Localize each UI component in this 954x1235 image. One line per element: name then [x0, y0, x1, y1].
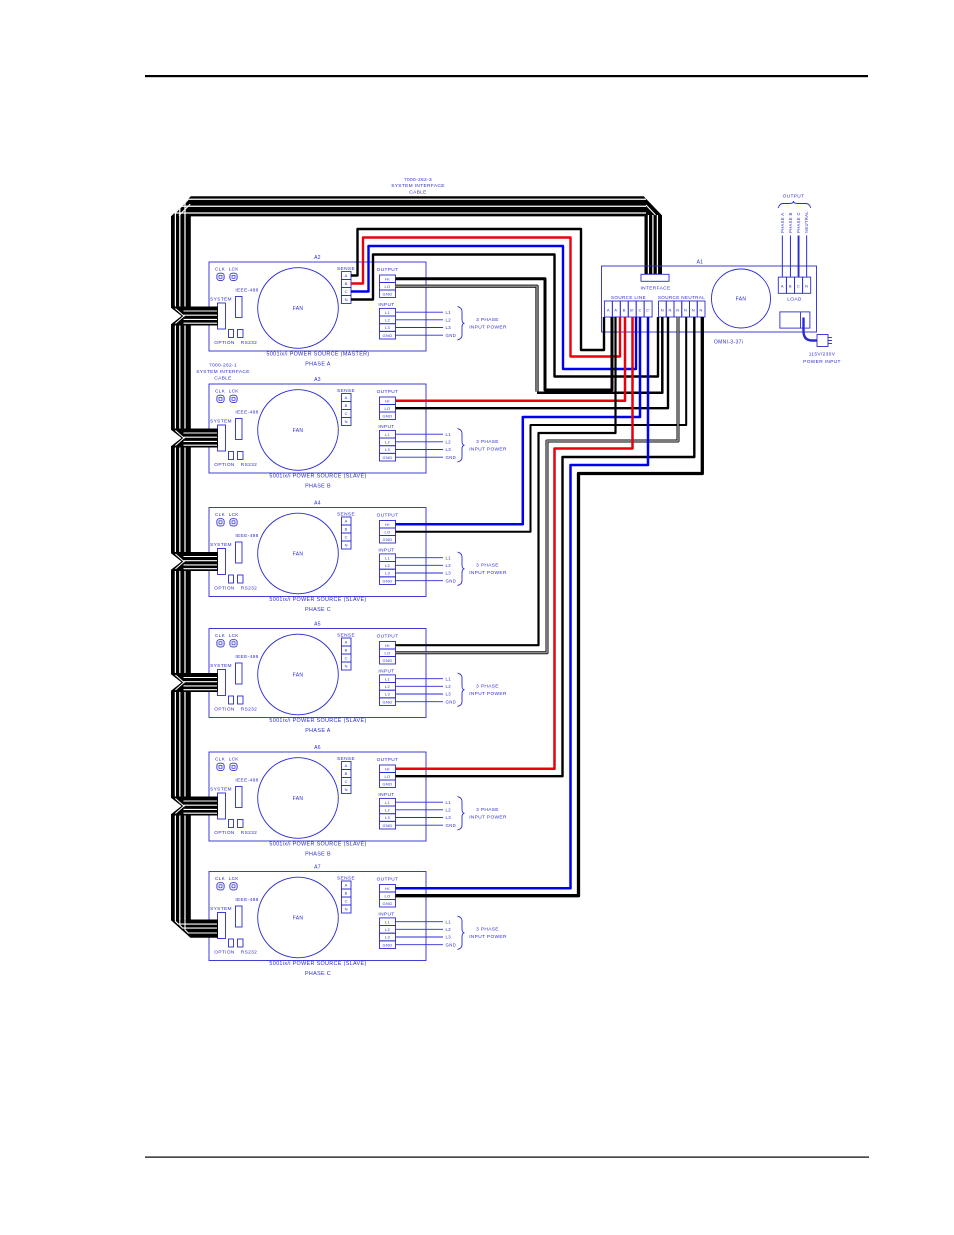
svg-text:PHASE A: PHASE A: [780, 213, 785, 233]
svg-text:L2: L2: [446, 563, 452, 568]
svg-text:A: A: [607, 308, 610, 313]
svg-text:RS232: RS232: [241, 340, 257, 346]
svg-text:CLK: CLK: [215, 756, 226, 761]
svg-text:HI: HI: [385, 276, 390, 281]
svg-text:N: N: [345, 787, 348, 792]
svg-text:PHASE C: PHASE C: [305, 971, 331, 977]
svg-text:GND: GND: [383, 578, 393, 583]
svg-text:3 PHASE: 3 PHASE: [476, 807, 499, 813]
svg-text:GND: GND: [383, 781, 393, 786]
svg-text:B: B: [345, 281, 348, 286]
svg-text:N: N: [661, 308, 664, 313]
svg-text:INPUT: INPUT: [378, 424, 394, 430]
svg-text:L3: L3: [385, 325, 391, 330]
svg-text:B': B': [630, 308, 634, 313]
power source A7 (PHASE C): [209, 865, 507, 978]
svg-text:NEUTRAL: NEUTRAL: [804, 211, 809, 233]
svg-text:CABLE: CABLE: [409, 189, 426, 195]
svg-text:B: B: [345, 891, 348, 896]
svg-text:SYSTEM: SYSTEM: [210, 419, 232, 425]
svg-text:FAN: FAN: [293, 306, 304, 312]
svg-text:GND: GND: [383, 537, 393, 542]
svg-text:L3: L3: [385, 571, 391, 576]
svg-text:CLK: CLK: [215, 388, 226, 393]
svg-text:FAN: FAN: [736, 296, 747, 302]
svg-text:L2: L2: [446, 927, 452, 932]
svg-text:N: N: [345, 419, 348, 424]
svg-text:3 PHASE: 3 PHASE: [476, 927, 499, 933]
svg-text:RS232: RS232: [241, 950, 257, 956]
svg-text:A: A: [781, 284, 784, 289]
svg-text:A: A: [345, 763, 348, 768]
A1 FAN: [712, 269, 771, 328]
svg-text:OUTPUT: OUTPUT: [377, 513, 399, 519]
svg-text:GND: GND: [446, 823, 457, 828]
cable stripes: [174, 202, 176, 920]
svg-text:OUTPUT: OUTPUT: [377, 267, 399, 273]
svg-text:GND: GND: [383, 942, 393, 947]
svg-text:GND: GND: [383, 901, 393, 906]
svg-text:L3: L3: [446, 571, 452, 576]
svg-text:B: B: [345, 527, 348, 532]
svg-text:3 PHASE: 3 PHASE: [476, 317, 499, 323]
svg-text:INPUT POWER: INPUT POWER: [469, 934, 507, 940]
svg-text:SOURCE NEUTRAL: SOURCE NEUTRAL: [658, 295, 705, 300]
wire: A7 OUTPUT LO to A1 SOURCE NEUTRAL N6 (black): [396, 317, 703, 896]
wire: A2 SENSE B to A1 SOURCE LINE B (red): [351, 238, 620, 357]
svg-text:L3: L3: [446, 935, 452, 940]
svg-text:OUTPUT: OUTPUT: [377, 757, 399, 763]
svg-text:L1: L1: [385, 676, 391, 681]
svg-text:A: A: [345, 273, 348, 278]
svg-text:L3: L3: [385, 447, 391, 452]
svg-text:L2: L2: [385, 807, 391, 812]
svg-text:GND: GND: [446, 942, 457, 947]
svg-text:HI: HI: [385, 766, 390, 771]
svg-text:B: B: [345, 771, 348, 776]
svg-text:SYSTEM INTERFACE: SYSTEM INTERFACE: [196, 369, 250, 375]
svg-text:A6: A6: [314, 745, 321, 751]
svg-text:INPUT POWER: INPUT POWER: [469, 815, 507, 821]
svg-text:LCK: LCK: [229, 876, 240, 881]
svg-text:PHASE B: PHASE B: [788, 212, 793, 233]
svg-text:IEEE-488: IEEE-488: [235, 778, 258, 784]
cable branch into A2 SYSTEM: [171, 307, 218, 326]
svg-text:INPUT: INPUT: [378, 792, 394, 798]
svg-text:N: N: [345, 297, 348, 302]
wire: A2 SENSE A to A1 SOURCE LINE A (black): [351, 229, 604, 350]
wire: A4 OUTPUT LO to A1 SOURCE NEUTRAL N4 (black): [396, 317, 687, 532]
svg-text:GND: GND: [446, 333, 457, 338]
svg-text:5001ix/i POWER SOURCE (SLAVE): 5001ix/i POWER SOURCE (SLAVE): [269, 842, 366, 848]
svg-text:FAN: FAN: [293, 428, 304, 434]
svg-text:L3: L3: [446, 815, 452, 820]
svg-text:N: N: [345, 543, 348, 548]
svg-text:CABLE: CABLE: [214, 376, 231, 382]
svg-text:GND: GND: [446, 699, 457, 704]
svg-text:C': C': [646, 308, 650, 313]
svg-text:L1: L1: [385, 432, 391, 437]
wire: A7 OUTPUT HI to A1 SOURCE LINE C' (blue): [396, 317, 649, 888]
svg-text:FAN: FAN: [293, 915, 304, 921]
svg-text:CLK: CLK: [215, 512, 226, 517]
svg-text:INPUT: INPUT: [378, 302, 394, 308]
svg-text:L1: L1: [385, 919, 391, 924]
svg-text:L3: L3: [446, 447, 452, 452]
svg-text:LCK: LCK: [229, 388, 240, 393]
svg-text:A: A: [345, 640, 348, 645]
cable branch into A4 SYSTEM: [171, 552, 218, 571]
interface box A1 (OMNI-3-37i): [602, 194, 841, 366]
svg-text:A2: A2: [314, 255, 321, 261]
svg-text:B: B: [623, 308, 626, 313]
svg-text:HI: HI: [385, 643, 390, 648]
svg-text:SYSTEM INTERFACE: SYSTEM INTERFACE: [391, 183, 445, 189]
svg-text:GND: GND: [383, 823, 393, 828]
svg-text:PHASE B: PHASE B: [305, 852, 331, 858]
wire: A6 OUTPUT HI to A1 SOURCE LINE B' (red): [396, 317, 633, 769]
power cord + plug: [804, 318, 818, 341]
page footer rule: [145, 1157, 869, 1158]
power source A5 (PHASE A): [209, 622, 507, 735]
svg-text:OPTION: OPTION: [214, 830, 235, 836]
svg-text:OMNI-3-37i: OMNI-3-37i: [714, 340, 743, 346]
svg-text:GND: GND: [446, 578, 457, 583]
svg-text:L2: L2: [446, 807, 452, 812]
svg-text:SYSTEM: SYSTEM: [210, 906, 232, 912]
svg-text:CLK: CLK: [215, 876, 226, 881]
svg-text:OUTPUT: OUTPUT: [377, 389, 399, 395]
svg-text:C: C: [345, 779, 348, 784]
power source A3 (PHASE B): [209, 377, 507, 490]
wire: A2 SENSE C to A1 SOURCE LINE C (blue): [351, 246, 636, 369]
page header rule: [145, 75, 868, 77]
svg-text:FAN: FAN: [293, 551, 304, 557]
svg-text:LO: LO: [384, 406, 390, 411]
svg-text:L3: L3: [446, 692, 452, 697]
svg-text:N: N: [699, 308, 702, 313]
svg-text:B: B: [789, 284, 792, 289]
svg-text:IEEE-488: IEEE-488: [235, 533, 258, 539]
svg-text:3 PHASE: 3 PHASE: [476, 439, 499, 445]
svg-text:L1: L1: [385, 310, 391, 315]
svg-text:A3: A3: [314, 377, 321, 383]
svg-text:IEEE-488: IEEE-488: [235, 654, 258, 660]
svg-text:PHASE C: PHASE C: [305, 607, 331, 613]
svg-text:5001ix/i POWER SOURCE (SLAVE): 5001ix/i POWER SOURCE (SLAVE): [269, 961, 366, 967]
svg-text:L3: L3: [385, 692, 391, 697]
svg-text:7000-262-1: 7000-262-1: [209, 363, 237, 369]
svg-text:GND: GND: [446, 455, 457, 460]
svg-text:A7: A7: [314, 865, 321, 871]
svg-text:LOAD: LOAD: [787, 297, 802, 303]
svg-text:L2: L2: [385, 927, 391, 932]
svg-text:GND: GND: [383, 291, 393, 296]
svg-text:RS232: RS232: [241, 462, 257, 468]
svg-text:A4: A4: [314, 501, 321, 507]
svg-text:PHASE A: PHASE A: [305, 728, 331, 734]
svg-text:OPTION: OPTION: [214, 340, 235, 346]
svg-text:L2: L2: [385, 563, 391, 568]
cable branch into A3 SYSTEM: [171, 429, 218, 448]
wire: A5 OUTPUT LO to A1 SOURCE NEUTRAL N3 (gray, black-edged): [396, 317, 679, 653]
system interface cable bundle (left trunk + top run to A1): [171, 196, 662, 920]
svg-text:L2: L2: [446, 684, 452, 689]
svg-text:GND: GND: [383, 333, 393, 338]
svg-text:L2: L2: [385, 439, 391, 444]
svg-text:N: N: [692, 308, 695, 313]
svg-text:C: C: [639, 308, 642, 313]
svg-text:GND: GND: [383, 699, 393, 704]
wire: A2 SENSE N to A1 SOURCE NEUTRAL N1 (black): [351, 255, 658, 377]
svg-text:N: N: [345, 907, 348, 912]
wire: A6 OUTPUT LO to A1 SOURCE NEUTRAL N5 (black): [396, 317, 695, 776]
INTERFACE connector: [641, 274, 669, 281]
cable branch into A5 SYSTEM: [171, 673, 218, 692]
svg-text:L3: L3: [385, 935, 391, 940]
svg-text:OUTPUT: OUTPUT: [377, 877, 399, 883]
svg-text:GND: GND: [383, 413, 393, 418]
svg-text:A: A: [345, 519, 348, 524]
svg-text:PHASE B: PHASE B: [305, 484, 331, 490]
svg-text:L3: L3: [385, 815, 391, 820]
wire: A3 OUTPUT LO to A1 SOURCE NEUTRAL N2 (black): [396, 317, 669, 408]
svg-text:LO: LO: [384, 893, 390, 898]
svg-text:INPUT POWER: INPUT POWER: [469, 325, 507, 331]
svg-text:LCK: LCK: [229, 756, 240, 761]
svg-text:CLK: CLK: [215, 633, 226, 638]
svg-text:A1: A1: [697, 260, 704, 266]
svg-text:N: N: [345, 664, 348, 669]
svg-text:GND: GND: [383, 658, 393, 663]
svg-text:INPUT POWER: INPUT POWER: [469, 447, 507, 453]
cable branch into A7 SYSTEM (trunk end elbow): [171, 920, 218, 938]
cable branch into A6 SYSTEM: [171, 797, 218, 816]
svg-text:POWER INPUT: POWER INPUT: [803, 359, 841, 365]
svg-text:5001ix/i POWER SOURCE (SLAVE): 5001ix/i POWER SOURCE (SLAVE): [269, 718, 366, 724]
svg-text:SYSTEM: SYSTEM: [210, 542, 232, 548]
svg-text:HI: HI: [385, 886, 390, 891]
svg-text:C: C: [345, 656, 348, 661]
wire: A4 OUTPUT HI to A1 SOURCE LINE C (blue): [396, 317, 641, 524]
svg-text:A: A: [345, 883, 348, 888]
svg-text:SYSTEM: SYSTEM: [210, 787, 232, 793]
svg-text:INPUT: INPUT: [378, 548, 394, 554]
svg-text:PHASE A: PHASE A: [305, 362, 331, 368]
svg-text:FAN: FAN: [293, 672, 304, 678]
svg-text:LO: LO: [384, 650, 390, 655]
svg-text:LCK: LCK: [229, 512, 240, 517]
svg-text:L2: L2: [446, 317, 452, 322]
svg-text:L1: L1: [385, 800, 391, 805]
svg-text:CLK: CLK: [215, 266, 226, 271]
wire: A5 OUTPUT HI to A1 SOURCE LINE A' (black): [396, 317, 616, 645]
svg-text:L2: L2: [385, 684, 391, 689]
wire: A3 OUTPUT HI to A1 SOURCE LINE B (red): [396, 317, 626, 401]
svg-text:RS232: RS232: [241, 830, 257, 836]
svg-text:5001ix/i POWER SOURCE (SLAVE): 5001ix/i POWER SOURCE (SLAVE): [269, 597, 366, 603]
svg-text:5001ix/i POWER SOURCE (SLAVE): 5001ix/i POWER SOURCE (SLAVE): [269, 474, 366, 480]
svg-text:OPTION: OPTION: [214, 707, 235, 713]
power source A6 (PHASE B): [209, 745, 507, 858]
svg-text:INPUT POWER: INPUT POWER: [469, 691, 507, 697]
svg-text:SYSTEM: SYSTEM: [210, 297, 232, 303]
svg-text:N: N: [676, 308, 679, 313]
svg-text:OPTION: OPTION: [214, 586, 235, 592]
svg-text:L1: L1: [446, 555, 452, 560]
svg-text:A5: A5: [314, 622, 321, 628]
svg-text:IEEE-488: IEEE-488: [235, 410, 258, 416]
svg-text:5001ix/i POWER SOURCE (MASTER): 5001ix/i POWER SOURCE (MASTER): [266, 352, 369, 358]
svg-text:L1: L1: [446, 310, 452, 315]
svg-text:SOURCE LINE: SOURCE LINE: [611, 295, 646, 300]
LOAD terminals: [778, 277, 786, 293]
svg-text:RS232: RS232: [241, 707, 257, 713]
svg-text:LO: LO: [384, 529, 390, 534]
svg-text:3 PHASE: 3 PHASE: [476, 684, 499, 690]
svg-text:A': A': [614, 308, 618, 313]
svg-text:SYSTEM: SYSTEM: [210, 663, 232, 669]
svg-text:IEEE-488: IEEE-488: [235, 288, 258, 294]
svg-text:INTERFACE: INTERFACE: [640, 286, 670, 292]
svg-text:GND: GND: [383, 455, 393, 460]
svg-text:OPTION: OPTION: [214, 950, 235, 956]
svg-text:INPUT: INPUT: [378, 669, 394, 675]
svg-text:RS232: RS232: [241, 586, 257, 592]
svg-text:N: N: [684, 308, 687, 313]
svg-text:L1: L1: [446, 800, 452, 805]
svg-text:C: C: [345, 289, 348, 294]
svg-text:C: C: [797, 284, 800, 289]
svg-text:IEEE-488: IEEE-488: [235, 897, 258, 903]
power source A2 (PHASE A): [209, 255, 507, 368]
svg-text:LO: LO: [384, 284, 390, 289]
svg-text:LCK: LCK: [229, 633, 240, 638]
power inlet: [780, 312, 810, 328]
svg-text:3 PHASE: 3 PHASE: [476, 563, 499, 569]
svg-text:L1: L1: [446, 919, 452, 924]
svg-text:N: N: [668, 308, 671, 313]
svg-text:LCK: LCK: [229, 266, 240, 271]
svg-text:B: B: [345, 648, 348, 653]
svg-text:B: B: [345, 403, 348, 408]
wire: A2 OUTPUT HI to A1 SOURCE LINE A' (black): [396, 279, 613, 390]
svg-text:A: A: [345, 395, 348, 400]
svg-text:C: C: [345, 535, 348, 540]
svg-text:L1: L1: [385, 555, 391, 560]
power source A4 (PHASE C): [209, 501, 507, 614]
svg-text:C: C: [345, 411, 348, 416]
svg-text:C: C: [345, 899, 348, 904]
svg-text:INPUT: INPUT: [378, 912, 394, 918]
LOAD output wires: [781, 236, 783, 278]
svg-text:7000-262-3: 7000-262-3: [404, 177, 432, 183]
wire: A2 OUTPUT LO to A1 SOURCE NEUTRAL N1 (gray, black-edged): [396, 286, 538, 391]
svg-text:115V/230V: 115V/230V: [809, 352, 836, 358]
svg-text:OUTPUT: OUTPUT: [377, 634, 399, 640]
svg-text:N: N: [805, 284, 808, 289]
svg-text:OPTION: OPTION: [214, 462, 235, 468]
svg-text:PHASE C: PHASE C: [796, 212, 801, 233]
svg-text:HI: HI: [385, 522, 390, 527]
svg-text:OUTPUT: OUTPUT: [783, 194, 805, 200]
svg-text:L2: L2: [446, 439, 452, 444]
svg-text:HI: HI: [385, 398, 390, 403]
svg-text:L2: L2: [385, 317, 391, 322]
svg-text:L1: L1: [446, 432, 452, 437]
svg-text:L3: L3: [446, 325, 452, 330]
svg-text:LO: LO: [384, 774, 390, 779]
svg-text:FAN: FAN: [293, 796, 304, 802]
svg-text:INPUT POWER: INPUT POWER: [469, 570, 507, 576]
svg-text:L1: L1: [446, 676, 452, 681]
